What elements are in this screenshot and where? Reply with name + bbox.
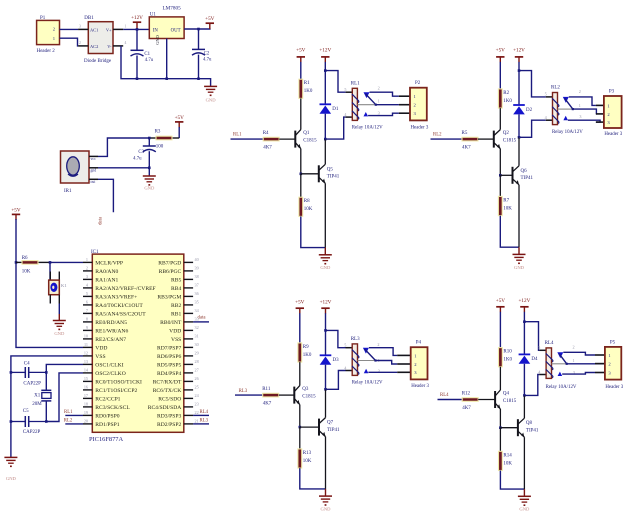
svg-text:C1815: C1815: [302, 395, 316, 400]
capacitor C5: [11, 409, 46, 435]
svg-text:RE2/CS/AN7: RE2/CS/AN7: [95, 337, 126, 343]
relay RL1 armature: [365, 94, 376, 105]
ground GND circuit 4: [523, 489, 525, 496]
svg-text:D3: D3: [333, 358, 340, 363]
diode D3: [320, 355, 339, 364]
relay RL2 contact numbers: [579, 89, 582, 119]
node emitter circuit 1: [300, 173, 303, 176]
svg-text:CAP22P: CAP22P: [23, 430, 41, 435]
svg-text:LM7805: LM7805: [163, 6, 182, 12]
svg-text:P2: P2: [415, 81, 421, 86]
svg-text:VDD: VDD: [169, 329, 181, 335]
ground GND circuit 2: [518, 247, 520, 254]
svg-text:37: 37: [195, 283, 199, 288]
svg-text:13: 13: [84, 359, 88, 364]
resistor R4: [263, 131, 280, 150]
svg-text:3: 3: [86, 274, 88, 279]
wire +12V branch to relay pin 5: [519, 71, 546, 97]
wire OSC1 pin 13: [46, 364, 83, 390]
wire +5V to R9: [299, 313, 301, 343]
svg-text:2: 2: [573, 345, 575, 350]
svg-text:R1: R1: [304, 81, 310, 86]
wire VSS pin 12: [11, 356, 83, 457]
wire R5 to Q2 base: [478, 138, 494, 140]
wire RL4 pin 22: [193, 414, 209, 416]
svg-text:RC6/TX/CK: RC6/TX/CK: [153, 388, 182, 394]
connector P2: [399, 81, 429, 130]
svg-text:C1815: C1815: [503, 399, 517, 404]
wire sensor out data: [98, 179, 113, 212]
svg-text:MCLR/VPP: MCLR/VPP: [95, 261, 123, 267]
svg-text:P4: P4: [416, 341, 422, 346]
wire DB1 V+ to U1 IN: [123, 28, 149, 30]
transistor Q2 C1815: [494, 130, 517, 149]
svg-text:5: 5: [344, 343, 346, 348]
svg-text:Header 2: Header 2: [37, 49, 56, 54]
capacitor C3: [133, 146, 156, 162]
wire U1 GND pin to ground rail: [166, 39, 168, 79]
resistor R5: [462, 131, 479, 150]
svg-text:+5V: +5V: [175, 115, 185, 121]
svg-text:10: 10: [84, 334, 88, 339]
svg-text:RL1: RL1: [351, 81, 360, 86]
wire RL2 pin 20: [65, 423, 83, 425]
svg-text:R12: R12: [462, 392, 471, 397]
wire node to R8: [300, 174, 302, 197]
wire crystal bottom: [45, 401, 47, 422]
svg-text:+5V: +5V: [496, 298, 506, 304]
svg-text:GND: GND: [6, 476, 17, 481]
wire sensor gnd to C3 node: [98, 167, 149, 169]
resistor R12: [462, 392, 479, 411]
svg-text:RC7/RX/DT: RC7/RX/DT: [153, 380, 182, 386]
resistor R9: [298, 343, 312, 362]
power flag +5V circuit 3: [295, 299, 305, 313]
ground GND MCU: [4, 457, 17, 481]
svg-text:Diode Bridge: Diode Bridge: [84, 59, 112, 64]
svg-text:Relay 10A/12V: Relay 10A/12V: [352, 125, 383, 130]
wire RL3 pin 21: [193, 423, 209, 425]
node R3 C3: [148, 137, 151, 140]
node C1 ground: [136, 77, 139, 80]
power flag +5V circuit 2: [496, 47, 506, 62]
svg-text:D2: D2: [526, 108, 533, 113]
svg-text:AC1: AC1: [90, 27, 98, 32]
wire node to Q8 collector: [523, 395, 525, 418]
svg-text:RC1/T1OSI/CCP2: RC1/T1OSI/CCP2: [95, 388, 137, 394]
node R6 left: [15, 261, 18, 264]
svg-text:4K7: 4K7: [462, 406, 471, 411]
node relay coil collector circuit 4: [523, 394, 526, 397]
wire D1 anode to collector node: [324, 114, 326, 139]
relay RL2 link: [558, 108, 573, 110]
wire node to K1: [49, 262, 51, 280]
svg-text:R11: R11: [262, 387, 271, 392]
wire node to R14: [499, 428, 501, 452]
transistor Q8 TIP41: [518, 418, 539, 437]
svg-text:C4: C4: [24, 362, 30, 367]
wire +5V to R3: [178, 127, 180, 138]
relay RL1 contact numbers: [378, 85, 380, 115]
svg-text:RC0/T1OSO/T1CKI: RC0/T1OSO/T1CKI: [95, 380, 142, 386]
connector P1: [37, 16, 60, 54]
svg-text:23: 23: [195, 402, 199, 407]
wire Q6 emitter to ground: [518, 185, 520, 247]
svg-text:RA1/AN1: RA1/AN1: [95, 278, 118, 284]
svg-text:5: 5: [86, 291, 88, 296]
svg-text:Q2: Q2: [503, 131, 510, 136]
svg-text:Relay 10A/12V: Relay 10A/12V: [546, 385, 577, 390]
svg-text:3: 3: [79, 24, 81, 28]
resistor R14: [499, 451, 513, 470]
wire relay pin 4 to collector node: [325, 117, 345, 139]
wire data pin 33: [193, 321, 209, 323]
wire node to Q7 base: [300, 426, 319, 428]
ground GND K1: [53, 321, 66, 336]
wire U1 OUT to +5V: [184, 28, 211, 30]
svg-text:3: 3: [579, 114, 581, 119]
wire D4 anode to collector node: [523, 364, 525, 396]
svg-text:4: 4: [538, 369, 541, 374]
svg-text:D1: D1: [332, 107, 339, 112]
wire R11 to Q3 base: [279, 394, 295, 396]
svg-text:Q6: Q6: [521, 169, 528, 174]
resistor R6: [16, 256, 50, 275]
wire relay common to header pin 2: [376, 361, 398, 365]
wire relay NC to header pin 1: [563, 352, 595, 355]
svg-text:RL1: RL1: [64, 410, 73, 415]
svg-text:TIP41: TIP41: [521, 176, 534, 181]
svg-text:4.7u: 4.7u: [203, 57, 212, 62]
wire R8 to ground rail: [301, 216, 326, 247]
svg-text:RL3: RL3: [200, 419, 209, 424]
node K1 top: [49, 261, 52, 264]
svg-text:RL3: RL3: [239, 389, 248, 394]
svg-text:RC5/SDO: RC5/SDO: [158, 397, 181, 403]
svg-text:IC1: IC1: [91, 250, 99, 255]
svg-text:10K: 10K: [22, 270, 31, 275]
svg-text:out: out: [91, 180, 97, 184]
svg-text:RL2: RL2: [64, 419, 73, 424]
svg-text:30: 30: [195, 342, 199, 347]
svg-text:RD7/PSP7: RD7/PSP7: [157, 346, 181, 352]
node +12V branch circuit 4: [523, 320, 526, 323]
wire input net to R11: [235, 394, 263, 396]
svg-text:Q5: Q5: [327, 167, 334, 172]
power flag +5V MCU: [11, 208, 21, 220]
ground GND circuit 3: [325, 489, 327, 496]
svg-text:11: 11: [84, 342, 88, 347]
wire OSC2 pin 14: [46, 373, 83, 422]
svg-text:Relay 10A/12V: Relay 10A/12V: [352, 381, 383, 386]
svg-text:C2: C2: [204, 51, 210, 56]
svg-text:VSS: VSS: [95, 354, 105, 360]
wire input net to R4: [231, 138, 264, 140]
svg-text:RB4: RB4: [171, 286, 181, 292]
svg-text:1: 1: [378, 98, 380, 103]
svg-text:32: 32: [195, 325, 199, 330]
svg-text:17: 17: [84, 393, 88, 398]
svg-text:data: data: [198, 316, 207, 321]
wire R14 to ground rail: [500, 471, 524, 490]
diode D4: [519, 354, 538, 363]
relay RL4 armature: [559, 354, 567, 364]
svg-text:5: 5: [538, 345, 540, 350]
wire R7 to ground rail: [500, 216, 519, 248]
svg-text:10K: 10K: [303, 459, 312, 464]
wire C2 top: [198, 29, 200, 49]
svg-text:GND: GND: [519, 507, 530, 512]
resistor R10: [499, 348, 513, 367]
relay RL1 link: [357, 104, 375, 106]
wire +12V branch to relay pin 5: [326, 330, 346, 347]
svg-text:RL2: RL2: [433, 133, 442, 138]
svg-text:27: 27: [195, 368, 199, 373]
svg-text:RD6/PSP6: RD6/PSP6: [157, 354, 181, 360]
wire +12V to diode D1: [324, 62, 326, 104]
svg-text:5: 5: [545, 92, 547, 97]
wire +12V branch to relay pin 5: [524, 322, 539, 351]
wire R12 to Q4 base: [478, 399, 495, 401]
svg-text:TIP41: TIP41: [327, 428, 340, 433]
wire relay pin 4 to collector node: [326, 371, 346, 390]
svg-text:OUT: OUT: [171, 28, 181, 33]
wire +12V to diode D2: [518, 62, 520, 105]
wire input net to R12: [438, 399, 463, 401]
svg-text:RE0/RD/AN5: RE0/RD/AN5: [95, 320, 127, 326]
resistor R3: [149, 130, 179, 150]
svg-text:4K7: 4K7: [462, 145, 471, 150]
wire R4 to Q1 base: [279, 138, 295, 140]
svg-text:RB6/PGC: RB6/PGC: [159, 269, 182, 275]
svg-text:C1815: C1815: [503, 139, 517, 144]
svg-text:31: 31: [195, 334, 199, 339]
svg-text:RC4/SDI/SDA: RC4/SDI/SDA: [148, 405, 182, 411]
node C4 left: [10, 371, 13, 374]
svg-text:RL4: RL4: [200, 410, 209, 415]
relay RL2 NC contact: [563, 97, 569, 103]
svg-text:AC2: AC2: [90, 44, 98, 49]
svg-text:RA3/AN3/VREF+: RA3/AN3/VREF+: [95, 295, 137, 301]
power flag +12V circuit 2: [513, 47, 525, 62]
ground rail wire: [121, 46, 211, 86]
wire relay NO to header pin 3: [368, 113, 399, 115]
svg-text:2: 2: [378, 85, 380, 90]
svg-text:P3: P3: [609, 90, 615, 95]
wire D3 anode to collector node: [325, 365, 327, 390]
node emitter circuit 2: [499, 174, 502, 177]
svg-text:9: 9: [86, 325, 88, 330]
svg-text:R14: R14: [503, 453, 512, 458]
svg-text:33: 33: [195, 317, 199, 322]
wire node to Q6 base: [500, 174, 512, 176]
svg-text:10K: 10K: [503, 206, 512, 211]
wire R2 to Q2 collector: [499, 108, 501, 130]
power flag +12V circuit 1: [319, 47, 331, 62]
svg-text:R4: R4: [263, 131, 269, 136]
svg-text:Header 3: Header 3: [411, 384, 429, 389]
node sensor gnd: [148, 167, 151, 170]
transistor Q1 C1815: [295, 130, 317, 149]
wire K1 to ground: [58, 304, 60, 315]
wire +5V to R1: [300, 62, 302, 79]
svg-text:RD3/PSP3: RD3/PSP3: [157, 414, 181, 420]
relay RL4 link: [552, 363, 567, 365]
node C5 left: [10, 420, 13, 423]
power flag +12V: [131, 15, 143, 29]
svg-text:+12V: +12V: [518, 298, 530, 304]
relay RL3 link: [358, 360, 376, 362]
wire relay NC to header pin 1: [569, 97, 596, 106]
svg-text:RA2/AN2/VREF-/CVREF: RA2/AN2/VREF-/CVREF: [95, 286, 155, 292]
svg-text:VSS: VSS: [171, 337, 181, 343]
svg-text:RD5/PSP5: RD5/PSP5: [157, 363, 181, 369]
node crystal C5: [45, 420, 48, 423]
svg-text:RA5/AN4/SS/C2OUT: RA5/AN4/SS/C2OUT: [95, 312, 146, 318]
svg-text:24: 24: [195, 393, 200, 398]
wire node to Q5 base: [301, 173, 319, 175]
relay RL3 contact numbers: [377, 342, 379, 374]
ground GND power section: [204, 86, 217, 102]
svg-text:RL4: RL4: [545, 341, 554, 346]
svg-text:V-: V-: [107, 44, 112, 49]
svg-text:38: 38: [195, 274, 199, 279]
svg-text:1: 1: [86, 257, 88, 262]
svg-text:29: 29: [195, 351, 199, 356]
node relay coil collector circuit 1: [324, 138, 327, 141]
svg-text:Header 3: Header 3: [604, 132, 622, 137]
node at C2 top: [197, 28, 200, 31]
wire relay pin 4 to collector node: [519, 120, 546, 137]
svg-text:TIP41: TIP41: [327, 175, 340, 180]
relay RL4 NO contact: [558, 372, 563, 376]
diode D1: [320, 104, 339, 113]
wire node to C3: [148, 138, 150, 146]
microcontroller IC1 PIC16F877A: [83, 250, 200, 443]
wire +12V branch to relay pin 5: [325, 71, 345, 93]
svg-text:R9: R9: [303, 345, 309, 350]
svg-text:R5: R5: [462, 131, 468, 136]
svg-text:RA4/T0CKI/C1OUT: RA4/T0CKI/C1OUT: [95, 303, 143, 309]
svg-text:36: 36: [195, 291, 199, 296]
connector P3: [596, 90, 623, 137]
svg-text:20: 20: [84, 419, 88, 424]
svg-text:20M: 20M: [32, 402, 42, 407]
ground GND circuit 1: [324, 248, 326, 255]
svg-text:TIP41: TIP41: [526, 429, 539, 434]
wire Q4 emitter to node: [499, 409, 501, 428]
svg-text:+5V: +5V: [11, 208, 21, 214]
wire +5V to R2: [499, 62, 501, 89]
svg-text:4: 4: [545, 115, 548, 120]
capacitor C2: [192, 49, 212, 62]
svg-text:RB0/INT: RB0/INT: [160, 320, 182, 326]
transistor Q6 TIP41: [513, 166, 534, 185]
wire input net to R5: [431, 138, 463, 140]
svg-text:5: 5: [344, 87, 346, 92]
node relay coil collector circuit 3: [324, 388, 327, 391]
svg-text:RD4/PSP4: RD4/PSP4: [157, 371, 181, 377]
capacitor C1: [131, 50, 154, 63]
transistor Q5 TIP41: [319, 164, 340, 183]
svg-text:4.7u: 4.7u: [145, 58, 154, 63]
svg-text:40: 40: [195, 257, 199, 262]
resistor R13: [298, 449, 312, 468]
svg-text:GND: GND: [321, 507, 332, 512]
wire +12V to diode D3: [325, 313, 327, 355]
svg-text:1K0: 1K0: [503, 99, 512, 104]
svg-text:4: 4: [344, 365, 347, 370]
transistor Q7 TIP41: [319, 418, 340, 437]
svg-text:gnd: gnd: [91, 169, 97, 173]
svg-text:V+: V+: [106, 27, 112, 32]
wire Q7 emitter to ground: [325, 437, 327, 489]
wire R9 to Q3 collector: [299, 362, 301, 386]
svg-text:RB3/PGM: RB3/PGM: [157, 295, 181, 301]
svg-text:R6: R6: [22, 256, 28, 261]
svg-text:12: 12: [84, 351, 88, 356]
svg-text:Header 3: Header 3: [605, 385, 623, 390]
power flag +12V circuit 3: [320, 299, 332, 313]
transistor Q4 C1815: [495, 390, 517, 409]
relay RL1: [344, 81, 360, 120]
svg-text:Q1: Q1: [303, 131, 310, 136]
svg-text:GND: GND: [54, 331, 65, 336]
wire C1 to +12V rail: [136, 29, 138, 50]
node relay coil collector circuit 2: [518, 136, 521, 139]
wire relay NC to header pin 1: [369, 348, 397, 356]
node U1 ground: [165, 77, 168, 80]
svg-text:2: 2: [579, 89, 581, 94]
relay RL4 contact numbers: [573, 345, 575, 375]
svg-text:4K7: 4K7: [263, 401, 272, 406]
svg-text:K1: K1: [61, 283, 67, 288]
wire D2 anode to collector node: [518, 114, 520, 137]
svg-text:C1: C1: [144, 52, 150, 57]
svg-text:RB2: RB2: [171, 303, 181, 309]
svg-text:P1: P1: [40, 16, 46, 21]
svg-text:RD1/PSP1: RD1/PSP1: [95, 422, 119, 428]
relay RL3 armature: [365, 349, 376, 360]
relay RL3: [344, 337, 360, 375]
svg-text:+12V: +12V: [131, 15, 143, 21]
svg-text:C3: C3: [138, 150, 144, 155]
wire relay pin 4 to collector node: [524, 375, 539, 396]
svg-text:RC2/CCP1: RC2/CCP1: [95, 397, 120, 403]
svg-text:34: 34: [195, 308, 200, 313]
wire relay common to header pin 2: [376, 104, 399, 106]
svg-text:10K: 10K: [304, 207, 313, 212]
svg-text:C1815: C1815: [303, 139, 317, 144]
svg-text:GND: GND: [144, 186, 155, 191]
svg-text:14: 14: [84, 368, 89, 373]
svg-text:Q3: Q3: [302, 387, 309, 392]
svg-text:1K0: 1K0: [503, 358, 512, 363]
wire node to R7: [499, 175, 501, 196]
wire node to Q8 base: [500, 427, 518, 429]
wire +5V to VDD: [16, 219, 83, 347]
svg-text:+12V: +12V: [319, 47, 331, 53]
wire node to Q6 collector: [518, 137, 520, 166]
node +12V branch circuit 3: [324, 329, 327, 332]
svg-text:U1: U1: [150, 13, 157, 18]
svg-text:X1: X1: [34, 394, 41, 399]
wire relay NC to header pin 1: [370, 92, 399, 96]
wire Q2 emitter to node: [499, 149, 501, 176]
wire sensor vcc to R3 node: [98, 138, 149, 156]
svg-text:4.7u: 4.7u: [133, 157, 142, 162]
svg-text:R7: R7: [503, 198, 509, 203]
